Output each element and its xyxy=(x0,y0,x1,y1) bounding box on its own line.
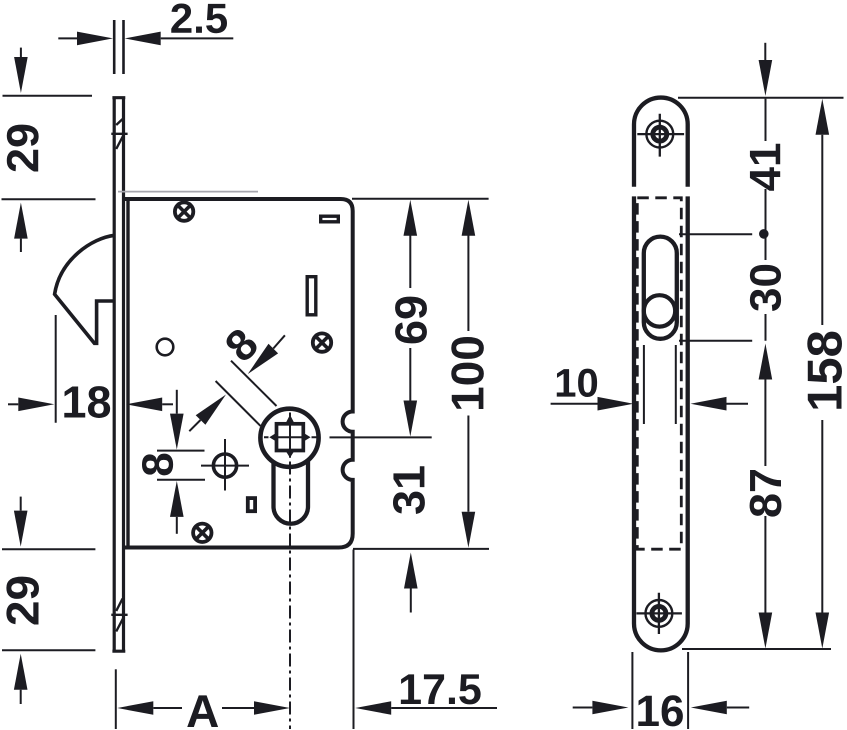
dim 41 arrow down outside xyxy=(764,43,766,60)
follower square notches xyxy=(269,415,310,458)
dim 31 arrow up outside xyxy=(404,553,418,589)
dim dot 41-30 xyxy=(759,229,769,239)
dim 69 arrow down xyxy=(409,348,411,401)
dim 2.5 arrow left xyxy=(77,32,113,46)
dim A ext line left xyxy=(115,669,117,729)
dashed lock case hidden outline xyxy=(637,198,681,549)
hook slot circle xyxy=(644,295,675,326)
dim 100-31 ext line bottom xyxy=(353,548,489,550)
dim 29 top arrow down xyxy=(20,48,22,57)
dim 100 arrow down xyxy=(467,416,469,512)
lock case left edge xyxy=(126,198,129,548)
dim 69 arrow up xyxy=(404,200,418,236)
dim A arrow right xyxy=(222,707,254,709)
dim 17.5 arrow right outside xyxy=(355,701,391,715)
dim 8 arrow down xyxy=(176,390,178,414)
plate screw top xyxy=(637,114,684,157)
cylinder hub circle xyxy=(260,409,318,467)
dim 29 bottom arrow up xyxy=(14,654,28,690)
dim 30-87 arrow up xyxy=(759,344,773,380)
dim 8 diagonal arrow upper xyxy=(248,344,278,374)
dim 69 ext line top xyxy=(352,198,489,200)
hook slot oblong xyxy=(644,237,677,339)
dim 8 arrow up xyxy=(170,481,184,517)
centerline vertical cylinder xyxy=(289,413,291,458)
faceplate break mark top xyxy=(111,119,127,149)
dim text 31 xyxy=(393,466,425,514)
dim 8 diagonal arrow lower xyxy=(196,395,226,425)
dim 10 ext lines xyxy=(644,345,676,424)
dim text 69 xyxy=(395,297,427,344)
screw mid-right xyxy=(313,333,331,351)
hook bolt xyxy=(55,235,115,343)
cylinder stem xyxy=(274,460,309,523)
plate bottom ext line xyxy=(682,648,831,650)
dim text A xyxy=(187,695,218,727)
slot bottom ext line xyxy=(679,340,752,342)
follower square xyxy=(277,424,304,451)
dim 158 arrow down xyxy=(821,420,823,613)
dim text 18 xyxy=(64,386,110,418)
dim text 29 bottom xyxy=(6,577,39,625)
dim 29 bottom ext lines xyxy=(2,549,95,650)
centerline horizontal hub / extension 69-31 xyxy=(264,436,432,438)
dim 16 ext lines xyxy=(632,652,688,729)
dim text 100 xyxy=(451,337,484,409)
dim 17.5 ext line xyxy=(353,550,355,730)
dim text 41 xyxy=(750,144,780,191)
dim text 8 diagonal xyxy=(223,326,260,363)
faint lid line xyxy=(118,191,258,193)
plate top ext line xyxy=(678,97,844,99)
dim text 158 xyxy=(807,332,842,409)
dim 2.5 line right xyxy=(161,37,234,39)
dim 18 arrow right xyxy=(126,398,162,412)
small rect hole xyxy=(248,498,255,511)
screw bottom-left xyxy=(193,524,211,542)
dim 16 arrow left xyxy=(573,707,593,709)
dim text 16 xyxy=(638,695,683,726)
dim text 10 xyxy=(557,369,597,397)
dim 41 line xyxy=(765,99,767,234)
dim 100 arrow up xyxy=(462,200,476,236)
dim 16 arrow right xyxy=(691,701,727,715)
dim 158 arrow up xyxy=(816,99,830,135)
dim text 17.5 xyxy=(401,674,481,704)
slot top-right xyxy=(321,216,339,222)
small circle hole xyxy=(157,339,174,356)
dim text 2.5 xyxy=(171,3,227,33)
dim 8 diagonal ext lines xyxy=(216,361,277,426)
dim 30 line xyxy=(765,234,767,341)
slot top ext line xyxy=(679,233,752,235)
lock case outline xyxy=(125,199,353,548)
dim 10 arrow right xyxy=(691,397,727,411)
dim 87 arrow down xyxy=(764,516,766,613)
screw top-left xyxy=(175,202,193,220)
dim 2.5 line left xyxy=(58,37,77,39)
faceplate break mark bottom xyxy=(111,599,127,632)
dim 29 top arrow up xyxy=(14,203,28,239)
faceplate (Stulp) xyxy=(112,97,125,653)
dim 29 bottom arrow down xyxy=(20,497,22,511)
slot vertical xyxy=(307,277,316,315)
dim 2.5 arrow right xyxy=(125,32,161,46)
dim text 29 top xyxy=(7,125,39,172)
dim 29 top ext lines xyxy=(2,96,96,200)
dim A arrow left xyxy=(117,701,153,715)
dim 2.5 projection lines xyxy=(114,20,123,74)
strike plate outline xyxy=(634,98,688,651)
plate screw bottom xyxy=(636,593,682,634)
dim text 87 xyxy=(750,470,782,517)
dim text 30 xyxy=(750,265,781,311)
dim 10 arrow left xyxy=(551,403,598,405)
dim 18 ext line xyxy=(55,315,57,423)
dim 18 arrow left xyxy=(8,403,18,405)
crosshair hole (handle screw) xyxy=(201,439,249,491)
dim 8 vertical ext lines xyxy=(157,451,205,480)
dim text 8 vertical xyxy=(142,454,173,476)
